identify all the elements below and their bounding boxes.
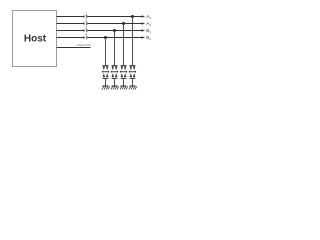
wire line4 B2 [57, 37, 143, 39]
terminal arrow B1 [142, 29, 146, 32]
svg-text:A2: A2 [146, 21, 151, 27]
ground G2 [120, 86, 128, 90]
wire line3 B1 [57, 30, 143, 32]
chassis gnd wire [57, 47, 91, 49]
tvs D4 [102, 65, 109, 79]
wire drop 1 [132, 17, 134, 87]
tvs D1 [129, 65, 136, 79]
svg-text:Chassis GND: Chassis GND [77, 45, 91, 47]
tvs D2 [120, 65, 127, 79]
svg-text:2: 2 [85, 18, 87, 22]
node n2 [122, 22, 125, 25]
terminal arrow B2 [142, 36, 146, 39]
fuse F1 [84, 15, 87, 19]
tvs D3 [111, 65, 118, 79]
svg-text:Host: Host [24, 34, 47, 45]
wire drop 3 [114, 31, 116, 87]
ground G1 [129, 86, 137, 90]
svg-text:4: 4 [85, 32, 87, 36]
svg-text:B1: B1 [146, 28, 151, 34]
svg-text:A1: A1 [146, 14, 151, 20]
wire drop 2 [123, 24, 125, 87]
svg-text:1: 1 [85, 11, 87, 15]
fuse F2 [84, 22, 87, 26]
ground G4 [102, 86, 110, 90]
fuse F3 [84, 29, 87, 33]
terminal arrow A2 [142, 22, 146, 25]
wire line2 A2 [57, 23, 143, 25]
fuse F4 [84, 36, 87, 40]
terminal arrow A1 [142, 15, 146, 18]
wire drop 4 [105, 38, 107, 87]
ground G3 [111, 86, 119, 90]
node n3 [113, 29, 116, 32]
svg-text:B2: B2 [146, 35, 151, 41]
node n4 [104, 36, 107, 39]
node n1 [131, 15, 134, 18]
host box U1 [13, 11, 57, 67]
wire line1 A1 [57, 16, 143, 18]
svg-text:3: 3 [85, 25, 87, 29]
